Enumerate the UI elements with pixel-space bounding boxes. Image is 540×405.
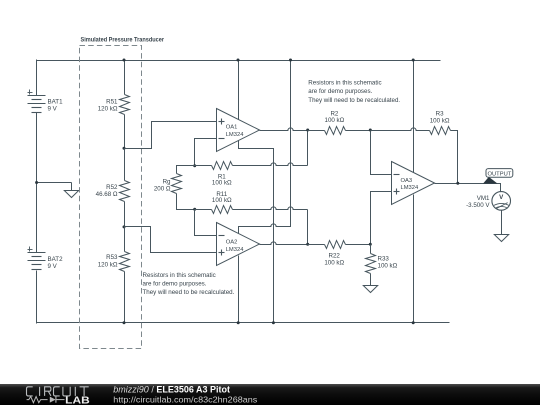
battery BAT2 [28, 252, 46, 254]
node: R53 on -9V bus [123, 321, 126, 324]
wire: R1 up to OA1 output node [307, 131, 309, 166]
svg-text:R52: R52 [106, 184, 118, 191]
node: R1/Rg/OA1- junction [193, 164, 196, 167]
svg-text:VM1: VM1 [477, 195, 490, 202]
svg-text:They will need to be recalcula: They will need to be recalculated. [308, 97, 400, 104]
node: R11/Rg/OA2- junction [193, 208, 196, 211]
wire: R2 left lead [308, 130, 325, 132]
node: R51 top on +9V bus [123, 59, 126, 62]
wire: OA2 V+ pin run with hop [239, 61, 291, 234]
svg-text:9 V: 9 V [48, 263, 58, 270]
logo resistor-diode squiggle [27, 397, 48, 403]
wire: BAT2- down to bottom bus [36, 271, 38, 324]
wire: R33 bottom lead [370, 274, 372, 286]
resistor R1 [212, 162, 233, 170]
ground: VM1 ground [494, 235, 508, 242]
svg-text:46.68 Ω: 46.68 Ω [96, 191, 118, 198]
svg-text:LM324: LM324 [226, 247, 245, 253]
wire: OA1 V+ pin to top bus [238, 61, 240, 120]
ground: main supply midpoint [64, 191, 78, 198]
wire: BAT1- down to mid node [36, 113, 38, 183]
wire: OA1 output with hop [260, 128, 308, 131]
wire: R53 bottom lead [124, 272, 126, 323]
wire: OA3 V- pin to bottom bus [413, 195, 415, 323]
svg-text:100 kΩ: 100 kΩ [324, 259, 344, 266]
svg-text:120 kΩ: 120 kΩ [98, 261, 118, 268]
wire: R1 left lead [195, 165, 212, 167]
footer bar [0, 384, 540, 405]
svg-text:LM324: LM324 [226, 132, 245, 138]
wire: OA3 plus input [371, 192, 392, 245]
wire: bridge tap to OA1 plus input [125, 122, 217, 149]
node: OA3 V+ on bus [412, 59, 415, 62]
node: OA2 V- on bottom bus [237, 321, 240, 324]
wire: +9V top bus [37, 60, 441, 62]
wire: bridge tap to OA2 plus input [125, 227, 217, 253]
wire: mid node to BAT2+ [36, 183, 38, 253]
svg-text:are for demo purposes.: are for demo purposes. [143, 281, 207, 288]
svg-text:R33: R33 [378, 256, 390, 263]
op-amp OA1 LM324 [217, 109, 260, 152]
svg-text:They will need to be recalcula: They will need to be recalculated. [143, 289, 235, 296]
node: OA2 output / R11 junction [306, 243, 309, 246]
svg-text:100 kΩ: 100 kΩ [212, 197, 232, 204]
wire: R52 top lead [124, 149, 126, 181]
resistor R52 [120, 181, 130, 202]
wire: R3 right lead down to output [451, 131, 458, 184]
svg-text:100 kΩ: 100 kΩ [430, 117, 450, 124]
node: OA3 V- on bottom bus [412, 321, 415, 324]
wire: R22 right lead [346, 244, 371, 246]
wire: R51 top lead [124, 61, 126, 95]
svg-text:-3.500 V: -3.500 V [466, 202, 490, 209]
wire: left rail top (bus to BAT1+) [36, 60, 38, 96]
svg-text:OUTPUT: OUTPUT [487, 171, 511, 177]
wire: R2 right lead [346, 130, 371, 132]
svg-text:LM324: LM324 [401, 185, 420, 191]
resistor R22 [325, 241, 346, 249]
svg-text:LAB: LAB [65, 396, 90, 405]
svg-text:http://circuitlab.com/c83c2hn2: http://circuitlab.com/c83c2hn268ans [113, 395, 257, 404]
op-amp OA3 LM324 [392, 162, 435, 205]
resistor R53 [120, 252, 130, 272]
wire: VM1 to ground [501, 211, 503, 235]
resistor R11 [212, 206, 233, 214]
wire: OA3 V+ pin to top bus [413, 61, 415, 173]
svg-text:are for demo purposes.: are for demo purposes. [308, 88, 372, 95]
battery BAT1 [28, 95, 46, 97]
resistor R51 [120, 95, 130, 115]
wire: Rg bottom lead [177, 194, 195, 210]
svg-text:Resistors in this schematic: Resistors in this schematic [143, 272, 216, 279]
svg-text:R53: R53 [106, 254, 118, 261]
node: OA1 V+ on bus [237, 59, 240, 62]
svg-text:OA3: OA3 [401, 178, 413, 184]
wire: R22 left lead [308, 244, 325, 246]
resistor R33 [366, 254, 376, 274]
svg-text:OA1: OA1 [226, 125, 238, 131]
wire: OA2 minus input [195, 210, 217, 236]
node: output / R3 junction [456, 182, 459, 185]
svg-text:100 kΩ: 100 kΩ [325, 117, 345, 124]
ground: R33 ground [363, 286, 377, 293]
svg-text:Resistors in this schematic: Resistors in this schematic [308, 79, 381, 86]
wire: OA1 V- pin to bottom bus [239, 141, 274, 323]
svg-text:Simulated Pressure Transducer: Simulated Pressure Transducer [81, 37, 165, 44]
wire: Rg top lead [177, 166, 195, 174]
wire: -9V bottom bus [37, 322, 450, 324]
node: R51/R52 junction [123, 147, 126, 150]
wire: OA2 V- pin to bottom bus [238, 256, 240, 323]
wire: R53 top lead [124, 227, 126, 252]
wire: R2-R3 link with hop over OA3 V+ [371, 128, 430, 131]
wire: R52 bottom lead [124, 202, 126, 227]
dashed enclosure: Simulated Pressure Transducer [80, 46, 142, 349]
node: R52/R53 junction [123, 225, 126, 228]
resistor Rg [172, 174, 182, 194]
node: OA1 output / R1 junction [306, 129, 309, 132]
wire: R11 down to OA2 output node [307, 210, 309, 245]
wire: R33 top lead [370, 245, 372, 254]
svg-text:R51: R51 [106, 98, 118, 105]
wire: OA2 output with hop [260, 242, 308, 245]
svg-text:100 kΩ: 100 kΩ [378, 263, 398, 270]
logo CIRCUIT lettering [27, 387, 89, 396]
flag: OUTPUT [486, 169, 513, 178]
node: supply midpoint junction [35, 181, 38, 184]
wire: R11 left lead [195, 209, 212, 211]
wire: R1 right lead with hops [233, 163, 308, 166]
node: OA1 V- on bottom bus [272, 321, 275, 324]
svg-text:bmizzi90 / ELE3506 A3 Pitot: bmizzi90 / ELE3506 A3 Pitot [113, 385, 230, 395]
svg-text:BAT1: BAT1 [48, 98, 64, 105]
svg-text:200 Ω: 200 Ω [154, 185, 171, 192]
svg-text:BAT2: BAT2 [48, 256, 64, 263]
wire: OA1 minus input to R1/Rg node [195, 139, 217, 166]
wire: OA3 output to voltmeter [435, 184, 501, 192]
node: OA2 V+ on top bus [289, 59, 292, 62]
resistor R2 [325, 127, 346, 135]
svg-text:120 kΩ: 120 kΩ [98, 106, 118, 113]
wire: R51 bottom lead [124, 115, 126, 149]
svg-text:9 V: 9 V [48, 105, 58, 112]
svg-text:100 kΩ: 100 kΩ [212, 180, 232, 187]
svg-text:OA2: OA2 [226, 240, 238, 246]
wire: R11 right lead with hops [233, 207, 308, 210]
node: R2/R3/OA3- junction [369, 129, 372, 132]
node: R22/R33/OA3+ junction [369, 243, 372, 246]
wire: mid node to ground [37, 182, 72, 184]
op-amp OA2 LM324 [217, 223, 260, 266]
resistor R3 [430, 127, 451, 135]
wire: OA3 minus input [371, 131, 392, 175]
svg-text:Rg: Rg [163, 178, 171, 185]
flag pointer: OUTPUT [483, 177, 498, 184]
voltmeter VM1 body [492, 192, 511, 211]
